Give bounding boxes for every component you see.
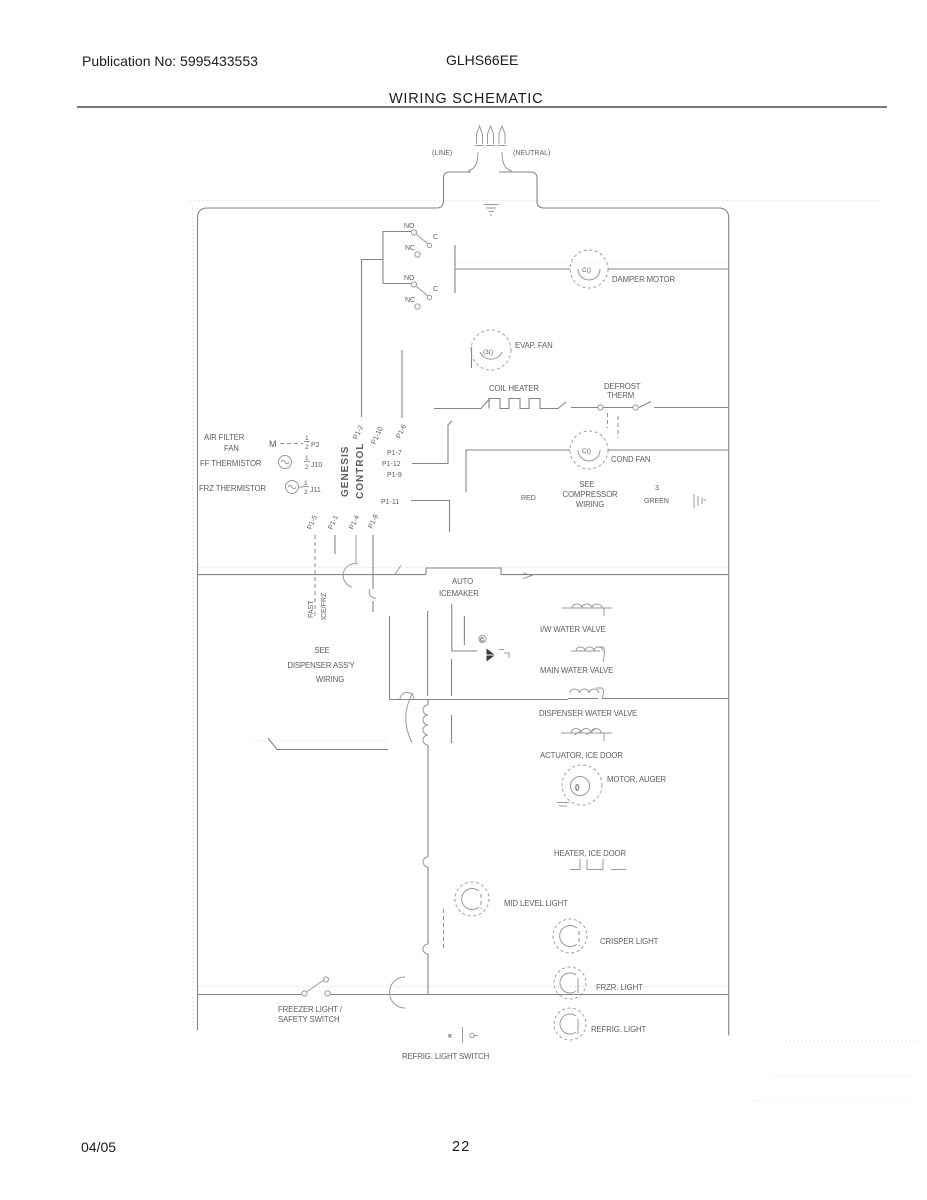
svg-text:P1-8: P1-8 — [367, 513, 380, 529]
hop on icemaker bottom wire — [400, 693, 414, 700]
chassis ground symbol by green — [694, 494, 706, 508]
svg-text:C: C — [433, 234, 438, 241]
svg-text:SAFETY SWITCH: SAFETY SWITCH — [278, 1015, 340, 1024]
svg-text:ICE/FRZ: ICE/FRZ — [321, 592, 328, 620]
svg-text:FRZR. LIGHT: FRZR. LIGHT — [596, 983, 643, 992]
svg-text:2: 2 — [305, 464, 309, 471]
svg-text:DISPENSER ASS'Y: DISPENSER ASS'Y — [287, 661, 355, 670]
freezer light switch right contact — [325, 991, 330, 996]
wire P1-8 down — [372, 535, 374, 612]
switch S1 common contact — [427, 243, 431, 247]
actuator ice door coil — [561, 728, 612, 741]
wire P1-12 to corner — [412, 421, 452, 464]
icemaker internal wire 2 — [427, 611, 429, 696]
bottom bus left segment — [198, 994, 303, 996]
freezer light switch open contact — [323, 977, 328, 982]
icemaker internal wire 4 — [463, 616, 465, 645]
i/w water valve coil — [562, 604, 612, 616]
svg-text:1: 1 — [305, 455, 309, 462]
svg-text:AIR FILTER: AIR FILTER — [204, 433, 245, 442]
svg-text:FREEZER LIGHT /: FREEZER LIGHT / — [278, 1005, 343, 1014]
svg-text:1: 1 — [305, 435, 309, 442]
dashed mech link mid level — [443, 909, 445, 949]
svg-text:NC: NC — [405, 297, 415, 304]
svg-text:22: 22 — [452, 1139, 471, 1155]
svg-text:COND FAN: COND FAN — [611, 455, 650, 464]
ghost scan line above damper wire — [455, 261, 728, 263]
wire defrost to right border — [654, 407, 729, 409]
svg-text:EVAP. FAN: EVAP. FAN — [515, 341, 553, 350]
svg-text:×: × — [448, 1033, 452, 1040]
crisper light inner — [560, 926, 579, 947]
switch S2 blade — [417, 287, 429, 297]
svg-text:NO: NO — [404, 275, 415, 282]
bus connector tick — [395, 566, 401, 575]
svg-text:COMPRESSOR: COMPRESSOR — [562, 490, 618, 499]
schematic border top right and right side — [544, 208, 729, 1036]
svg-text:P1-9: P1-9 — [387, 472, 402, 479]
wire P1-8 hop — [369, 589, 376, 598]
svg-text:MAIN WATER VALVE: MAIN WATER VALVE — [540, 666, 613, 675]
defrost thermostat sensing link dashed — [608, 413, 619, 438]
refrig light switch symbol — [448, 1027, 478, 1043]
svg-text:CRISPER LIGHT: CRISPER LIGHT — [600, 937, 659, 946]
svg-text:MOTOR, AUGER: MOTOR, AUGER — [607, 775, 667, 784]
svg-text:1: 1 — [304, 480, 308, 487]
defrost thermostat right contact — [633, 405, 638, 410]
air filter fan dashed link — [280, 443, 303, 445]
svg-text:DISPENSER WATER VALVE: DISPENSER WATER VALVE — [539, 709, 637, 718]
hop on harness at 949 — [423, 944, 428, 954]
dispenser water valve wire — [568, 698, 729, 700]
dispenser harness drop with coil loops — [427, 700, 429, 995]
mains ground symbol — [484, 205, 499, 216]
faint note rule 2 bottom right — [775, 1075, 915, 1077]
svg-text:SEE: SEE — [579, 480, 594, 489]
motor auger circle — [562, 765, 602, 805]
damper switch bracket — [383, 232, 411, 284]
icemaker bridge on bus — [426, 568, 501, 575]
icemaker internal wire 1 — [389, 616, 391, 700]
svg-text:J11: J11 — [310, 487, 321, 494]
wire genesis control P1-2 to damper switches — [362, 260, 384, 418]
svg-text:FAN: FAN — [224, 444, 239, 453]
svg-text:C: C — [433, 286, 438, 293]
line wire from plug to border — [468, 152, 478, 171]
svg-text:FAST: FAST — [308, 600, 315, 618]
svg-text:HEATER, ICE DOOR: HEATER, ICE DOOR — [554, 849, 627, 858]
ghost scan line above top border — [190, 200, 880, 202]
svg-text:THERM: THERM — [607, 391, 634, 400]
svg-text:COIL HEATER: COIL HEATER — [489, 384, 539, 393]
defrost thermostat left contact — [598, 405, 603, 410]
evap fan stub — [471, 347, 473, 368]
coil heater lead wire — [434, 400, 489, 409]
svg-text:WIRING: WIRING — [316, 675, 344, 684]
cond fan circle — [570, 431, 608, 469]
refrig light circle — [554, 1008, 586, 1040]
svg-text:Publication No: 5995433553: Publication No: 5995433553 — [82, 53, 258, 69]
schematic border left and top-left corner — [198, 208, 438, 1030]
hop on harness at 862 — [423, 857, 428, 867]
svg-text:ICEMAKER: ICEMAKER — [439, 589, 479, 598]
svg-text:I/W WATER VALVE: I/W WATER VALVE — [540, 625, 606, 634]
svg-text:P1-12: P1-12 — [382, 461, 401, 468]
plug prong 2 — [486, 126, 495, 146]
svg-text:P2: P2 — [311, 442, 320, 449]
svg-text:2: 2 — [304, 489, 308, 496]
wire cond fan to right border — [608, 449, 729, 451]
plug prong 1 — [475, 126, 484, 146]
wire to damper motor — [455, 268, 570, 270]
wire from P1-11 through icemaker — [451, 659, 453, 743]
svg-text:(3(): (3() — [483, 349, 493, 356]
switch S2 NC contact — [415, 304, 420, 309]
svg-text:(NEUTRAL): (NEUTRAL) — [513, 150, 550, 157]
schematic border top bump (power entry notch) left side — [437, 172, 471, 208]
svg-text:RED: RED — [521, 495, 536, 502]
wire genesis P1-6 riser — [401, 350, 403, 418]
ghost scan line above main bus — [198, 567, 728, 569]
svg-text:P1-11: P1-11 — [381, 499, 399, 506]
svg-text:P1-1: P1-1 — [327, 514, 340, 530]
damper motor circle — [570, 250, 608, 288]
svg-text:C: C — [480, 638, 484, 644]
wire damper motor to right border — [608, 268, 729, 270]
svg-text:NO: NO — [404, 223, 415, 230]
frzr light inner — [560, 973, 578, 993]
schematic border top bump (power entry notch) right side — [499, 172, 544, 208]
bus connector arrow — [523, 573, 532, 579]
svg-text:NC: NC — [405, 245, 415, 252]
switch common junction bar — [454, 245, 456, 293]
title underline rule — [77, 106, 887, 108]
svg-text:C(): C() — [582, 448, 591, 455]
ghost scan line above bottom bus — [198, 986, 728, 988]
switch S2 common contact — [427, 295, 431, 299]
ghost scan line above dispenser box line — [252, 740, 388, 742]
ghost scan column left of border — [192, 205, 194, 1025]
heater ice door element — [570, 859, 626, 870]
freezer light switch left contact — [302, 991, 307, 996]
wire cond fan corner — [466, 450, 570, 492]
svg-text:2: 2 — [305, 444, 309, 451]
svg-text:C(): C() — [582, 267, 591, 274]
frzr light circle — [554, 967, 586, 999]
svg-text:GREEN: GREEN — [644, 498, 669, 505]
svg-text:DEFROST: DEFROST — [604, 382, 641, 391]
svg-text:P1-4: P1-4 — [348, 514, 361, 530]
svg-text:M: M — [269, 439, 277, 449]
wire P1-11 down to icemaker — [411, 501, 450, 533]
evap fan inner detail — [480, 352, 502, 359]
wire P1-4 hop over bus — [343, 535, 358, 587]
svg-text:GLHS66EE: GLHS66EE — [446, 52, 518, 68]
switch S2 NO contact — [411, 282, 416, 287]
main water valve coil — [571, 647, 605, 662]
svg-text:(LINE): (LINE) — [432, 150, 452, 157]
svg-text:REFRIG. LIGHT SWITCH: REFRIG. LIGHT SWITCH — [402, 1052, 489, 1061]
wire P1-1 stub — [334, 535, 336, 554]
mid level light inner — [462, 888, 481, 909]
FF thermistor symbol — [279, 456, 292, 469]
mid level light circle — [455, 882, 489, 916]
FRZ thermistor symbol — [286, 481, 304, 494]
svg-text:P1-7: P1-7 — [387, 450, 402, 457]
svg-text:MID LEVEL LIGHT: MID LEVEL LIGHT — [504, 899, 568, 908]
coil heater element — [489, 399, 546, 409]
svg-text:WIRING SCHEMATIC: WIRING SCHEMATIC — [389, 91, 543, 107]
neutral wire from plug to border — [502, 152, 512, 171]
icemaker contact bracket — [499, 650, 509, 659]
icemaker internal wire 3 — [452, 604, 477, 651]
svg-text:FRZ THERMISTOR: FRZ THERMISTOR — [199, 484, 266, 493]
svg-text:DAMPER MOTOR: DAMPER MOTOR — [612, 275, 675, 284]
svg-text:ACTUATOR, ICE DOOR: ACTUATOR, ICE DOOR — [540, 751, 623, 760]
svg-text:04/05: 04/05 — [81, 1139, 116, 1155]
svg-text:CONTROL: CONTROL — [355, 443, 366, 499]
fast ice dashed wire P1-5 — [314, 535, 316, 616]
svg-text:P1-6: P1-6 — [395, 423, 408, 439]
faint note rule 3 bottom right — [755, 1100, 915, 1102]
main neutral bus left segment — [198, 574, 427, 576]
svg-text:P1-5: P1-5 — [306, 514, 319, 530]
motor auger ground mark — [557, 803, 569, 807]
dispenser harness curve — [406, 693, 413, 743]
svg-text:(): () — [575, 784, 579, 791]
icemaker thermostat circle — [479, 635, 486, 643]
svg-text:SEE: SEE — [314, 646, 329, 655]
refrig light inner — [560, 1014, 578, 1034]
svg-text:J10: J10 — [311, 462, 322, 469]
bottom bus right segment — [330, 994, 729, 996]
defrost thermostat wire between contacts — [571, 407, 598, 409]
damper motor inner winding — [578, 269, 600, 280]
svg-text:REFRIG. LIGHT: REFRIG. LIGHT — [591, 1025, 647, 1034]
faint note rule 1 bottom right — [785, 1040, 915, 1042]
cond fan inner winding — [578, 450, 600, 461]
icemaker bottom wire to border — [390, 699, 569, 701]
defrost thermostat blade — [603, 402, 651, 408]
hop on bottom bus — [390, 977, 406, 1008]
switch S1 NC contact — [415, 252, 420, 257]
dispenser harness coil squiggle — [423, 705, 428, 745]
freezer light switch blade — [307, 980, 324, 992]
main neutral bus right segment — [501, 574, 729, 576]
dispenser box line — [268, 738, 389, 750]
evap fan circle — [471, 330, 511, 370]
svg-text:P1-10: P1-10 — [370, 426, 384, 446]
svg-text:WIRING: WIRING — [576, 500, 604, 509]
svg-text:AUTO: AUTO — [452, 577, 473, 586]
switch S1 blade — [417, 235, 429, 245]
svg-text:3: 3 — [655, 485, 659, 492]
motor auger inner — [571, 777, 590, 796]
svg-text:FF THERMISTOR: FF THERMISTOR — [200, 459, 262, 468]
svg-text:GENESIS: GENESIS — [340, 446, 351, 497]
crisper light circle — [553, 919, 587, 953]
switch S1 NO contact — [411, 230, 416, 235]
coil heater right lead — [546, 402, 566, 409]
dispenser water valve coil — [570, 688, 604, 699]
plug prong 3 — [498, 126, 507, 146]
svg-text:P1-2: P1-2 — [352, 424, 365, 440]
icemaker heater flag — [487, 649, 495, 662]
